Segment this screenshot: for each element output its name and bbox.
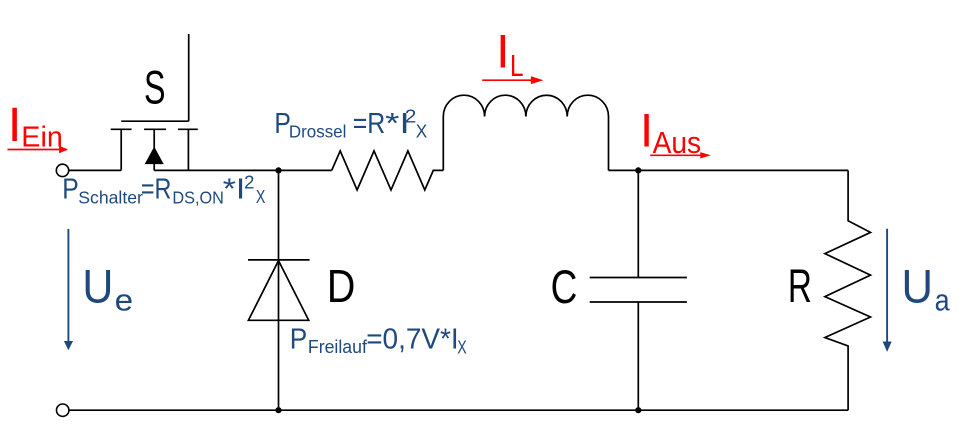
svg-text:Drossel: Drossel xyxy=(289,121,347,141)
wire switch to resistor xyxy=(154,169,332,171)
terminal input bottom (open circle) xyxy=(57,404,69,416)
transistor S (MOSFET switch) xyxy=(111,34,198,170)
node diode bottom xyxy=(275,407,281,413)
label P_Freilauf formula xyxy=(290,323,467,358)
svg-text:I: I xyxy=(496,26,509,79)
arrow I_Aus xyxy=(650,154,701,156)
svg-text:X: X xyxy=(256,187,266,207)
diode D cathode bar xyxy=(248,259,310,261)
svg-text:=0,7V*I: =0,7V*I xyxy=(366,323,459,355)
svg-text:S: S xyxy=(144,62,166,115)
bottom rail wire xyxy=(69,409,848,411)
resistor (inductor series R) xyxy=(332,151,444,190)
node capacitor bottom xyxy=(635,407,641,413)
svg-text:=R: =R xyxy=(353,107,386,139)
arrow U_e xyxy=(67,229,69,341)
svg-text:L: L xyxy=(510,48,524,83)
svg-text:U: U xyxy=(902,261,934,314)
svg-text:a: a xyxy=(935,283,951,318)
capacitor C bottom plate xyxy=(590,301,687,303)
arrow U_a xyxy=(886,229,888,342)
svg-text:DS,ON: DS,ON xyxy=(172,187,224,207)
label P_Drossel formula xyxy=(274,107,427,142)
capacitor C branch wire lower xyxy=(637,302,639,410)
capacitor C branch wire upper xyxy=(637,170,639,277)
label P_Schalter formula xyxy=(62,173,265,208)
svg-text:U: U xyxy=(82,260,113,313)
inductor L xyxy=(443,95,608,170)
svg-text:C: C xyxy=(551,261,578,314)
svg-text:D: D xyxy=(327,260,356,312)
diode D triangle xyxy=(248,261,308,321)
svg-text:X: X xyxy=(416,122,428,142)
node output junction xyxy=(635,167,641,173)
capacitor C top plate xyxy=(590,277,687,279)
svg-text:2: 2 xyxy=(405,107,417,127)
svg-text:2: 2 xyxy=(244,173,254,193)
terminal input top (open circle) xyxy=(56,164,68,176)
svg-text:P: P xyxy=(62,173,78,205)
load resistor R xyxy=(825,170,871,410)
svg-text:*I: *I xyxy=(223,173,246,205)
arrow I_Ein xyxy=(8,149,61,151)
svg-text:X: X xyxy=(457,337,467,357)
svg-text:I: I xyxy=(640,105,653,158)
arrow I_L xyxy=(482,79,531,81)
node switch/diode junction xyxy=(275,167,281,173)
svg-text:Schalter: Schalter xyxy=(78,188,143,208)
svg-text:e: e xyxy=(115,282,134,317)
wire inductor to output node xyxy=(609,169,849,171)
svg-text:Freilauf: Freilauf xyxy=(308,336,368,357)
svg-text:=R: =R xyxy=(141,173,172,205)
svg-text:P: P xyxy=(290,323,308,355)
transistor body arrow xyxy=(145,147,164,165)
svg-text:I: I xyxy=(8,98,21,152)
diode D branch wire xyxy=(278,170,280,410)
wire input to switch source xyxy=(69,169,121,171)
svg-text:R: R xyxy=(788,260,812,313)
